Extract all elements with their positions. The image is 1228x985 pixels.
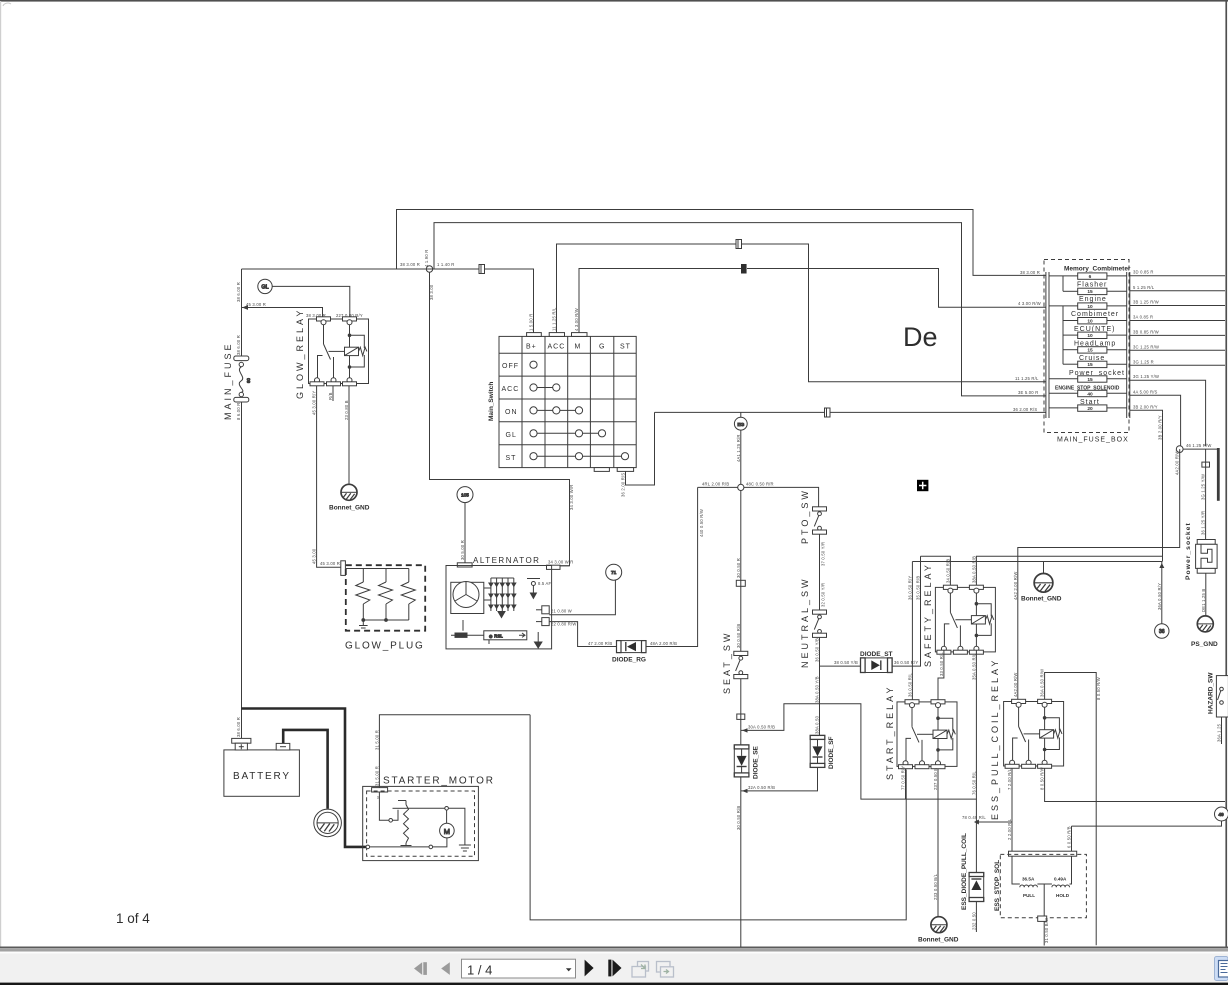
wire ess pin3-bottom out right bbox=[1045, 769, 1225, 802]
svg-text:36A 0.50 R/W: 36A 0.50 R/W bbox=[1040, 669, 1045, 697]
alternator regulator bbox=[451, 620, 527, 644]
connector dark on y269 wire bbox=[741, 264, 747, 274]
svg-text:45 3.00 R/Y: 45 3.00 R/Y bbox=[312, 391, 317, 415]
bus bar right bbox=[1127, 272, 1130, 418]
prev-view icon (disabled) bbox=[632, 962, 649, 978]
page right border bbox=[1225, 1, 1227, 947]
svg-text:EG: EG bbox=[737, 422, 744, 428]
svg-text:3E 5.00 R: 3E 5.00 R bbox=[1018, 390, 1038, 395]
svg-text:227 0.80 R/Y: 227 0.80 R/Y bbox=[336, 313, 363, 318]
svg-text:3C 1.25 R/W: 3C 1.25 R/W bbox=[1133, 344, 1159, 349]
svg-text:30 0.50 R: 30 0.50 R bbox=[736, 558, 741, 578]
wire ess pin1-bottom to solenoid bbox=[1011, 769, 1013, 852]
prev-page button (disabled) bbox=[441, 962, 450, 975]
next-view icon (disabled) bbox=[657, 962, 674, 978]
svg-text:40: 40 bbox=[1087, 391, 1093, 397]
svg-text:71: 71 bbox=[611, 570, 617, 576]
connector on y244 wire bbox=[736, 240, 742, 249]
toolbar body bbox=[0, 953, 1228, 982]
svg-text:36 0.50 R/Y: 36 0.50 R/Y bbox=[894, 660, 918, 665]
svg-text:38 0.50 Y/B: 38 0.50 Y/B bbox=[834, 660, 858, 665]
wire battery negative thick bbox=[283, 730, 327, 809]
svg-text:35A 0.50 R/L: 35A 0.50 R/L bbox=[971, 653, 976, 680]
connector on power socket wire bbox=[1202, 462, 1210, 467]
circle EG bbox=[734, 412, 747, 430]
wire NEUTRAL down to DIODE_SF bbox=[819, 637, 821, 736]
fuse output wires bbox=[1130, 276, 1225, 446]
svg-text:32 0.50 Y/R: 32 0.50 Y/R bbox=[821, 583, 826, 607]
svg-text:36 0.50 R/Y: 36 0.50 R/Y bbox=[907, 576, 912, 600]
svg-text:G: G bbox=[599, 344, 605, 351]
svg-text:38 6.00 R: 38 6.00 R bbox=[236, 335, 241, 355]
wire safety pin bottom3 down long bbox=[975, 650, 977, 822]
svg-text:ACC: ACC bbox=[502, 386, 520, 393]
alternator rotor bbox=[451, 582, 484, 614]
battery minus terminal bbox=[276, 743, 290, 750]
wire start pin1-bottom down bbox=[905, 769, 907, 800]
DIODE_RG bbox=[617, 641, 647, 653]
wire safety pin bottom1 to start pin2 bbox=[938, 650, 944, 700]
wire ACC feed y244 bbox=[557, 244, 1047, 382]
connector on y412 wire bbox=[825, 408, 831, 417]
connector on seat wire bbox=[736, 580, 745, 586]
starter internals bbox=[366, 792, 471, 851]
svg-text:32A 0.50 R/B: 32A 0.50 R/B bbox=[748, 785, 775, 790]
page top border bbox=[0, 0, 1228, 2]
svg-text:38 3.00 R: 38 3.00 R bbox=[306, 313, 326, 318]
sidebar toggle button (bottom right) bbox=[1215, 957, 1228, 981]
fuse internal links bbox=[1062, 276, 1064, 364]
wire EG bus y487 bbox=[698, 486, 738, 488]
svg-text:48C 0.50 R/R: 48C 0.50 R/R bbox=[746, 481, 774, 486]
svg-text:38 3.00: 38 3.00 bbox=[429, 284, 434, 300]
svg-text:ESS_STOP_SOL: ESS_STOP_SOL bbox=[994, 860, 1001, 911]
svg-text:37 0.50 Y/R: 37 0.50 Y/R bbox=[821, 542, 826, 566]
svg-text:3G 1.25 Y/W: 3G 1.25 Y/W bbox=[1133, 374, 1159, 379]
svg-text:11 1.25 R/L: 11 1.25 R/L bbox=[552, 307, 557, 331]
svg-text:38 3.00 R: 38 3.00 R bbox=[400, 262, 420, 267]
wire solenoid right feed bbox=[1071, 826, 1073, 851]
wire glow relay pin2 stub bbox=[332, 386, 334, 401]
svg-text:ON: ON bbox=[505, 409, 518, 416]
switch bottom tabs bbox=[594, 468, 633, 472]
component HAZARD_SW bbox=[1216, 676, 1228, 717]
alternator top terminal bbox=[457, 563, 472, 567]
svg-text:0.49A: 0.49A bbox=[1054, 877, 1067, 882]
wire seat sw branch route bbox=[740, 679, 742, 745]
svg-text:237 0.50 B: 237 0.50 B bbox=[933, 768, 938, 790]
svg-text:10: 10 bbox=[1087, 333, 1093, 339]
connector on seat branch bbox=[737, 714, 745, 719]
svg-text:232 0.50: 232 0.50 bbox=[971, 912, 976, 930]
svg-text:OFF: OFF bbox=[502, 363, 519, 370]
node junction y269 bbox=[426, 266, 432, 272]
svg-text:◎ RSL: ◎ RSL bbox=[489, 633, 503, 638]
svg-text:36A 1.25: 36A 1.25 bbox=[1217, 723, 1222, 742]
svg-text:31 5.00 R: 31 5.00 R bbox=[374, 730, 379, 750]
wire DIODE_RG up loop bbox=[646, 487, 698, 646]
wire ess pin2 feed loop bbox=[1045, 673, 1097, 946]
svg-text:ST: ST bbox=[620, 344, 631, 351]
svg-text:38A 0.50 R/B: 38A 0.50 R/B bbox=[971, 556, 976, 583]
switch contacts row ACC bbox=[530, 361, 629, 460]
svg-text:47 2.00 R/B: 47 2.00 R/B bbox=[588, 641, 612, 646]
wire start pin3-bottom to ground bbox=[937, 769, 939, 917]
svg-text:SEAT_SW: SEAT_SW bbox=[722, 631, 732, 694]
svg-text:10: 10 bbox=[1087, 304, 1093, 310]
svg-text:DIODE_SE: DIODE_SE bbox=[753, 745, 760, 779]
fuse MAIN_FUSE 60 bbox=[234, 356, 251, 402]
svg-text:4A1 1.25 R/R: 4A1 1.25 R/R bbox=[736, 434, 741, 462]
circle 71 bbox=[606, 564, 622, 580]
svg-text:1 of 4: 1 of 4 bbox=[116, 911, 150, 926]
svg-text:11 1.25 R/L: 11 1.25 R/L bbox=[1015, 376, 1039, 381]
page number input bbox=[462, 959, 576, 978]
fuse F-PSOCK 15 bbox=[1049, 376, 1127, 382]
svg-text:Bonnet_GND: Bonnet_GND bbox=[329, 505, 370, 512]
switch PTO_SW bbox=[813, 507, 827, 534]
svg-text:8 0.50 R/W: 8 0.50 R/W bbox=[1040, 767, 1045, 790]
svg-text:36A 0.50 R/Y: 36A 0.50 R/Y bbox=[1157, 583, 1162, 610]
wire second feed y223 bbox=[434, 223, 1046, 396]
svg-text:233 0.50 B/L: 233 0.50 B/L bbox=[933, 873, 938, 900]
svg-text:36 2.00 R/S: 36 2.00 R/S bbox=[1013, 407, 1037, 412]
alternator ground arrow bbox=[534, 642, 543, 649]
svg-text:36.5A: 36.5A bbox=[1022, 877, 1035, 882]
svg-text:30A 0.50 R/B: 30A 0.50 R/B bbox=[748, 724, 775, 729]
svg-text:Combimeter: Combimeter bbox=[1071, 311, 1119, 318]
wire ess diode branch bbox=[976, 822, 1012, 873]
svg-text:7 2.00 R/L: 7 2.00 R/L bbox=[1007, 768, 1012, 790]
svg-text:Main_Switch: Main_Switch bbox=[488, 382, 495, 421]
svg-text:38 6.00 R: 38 6.00 R bbox=[236, 717, 241, 737]
wire start line y561 bbox=[912, 561, 1162, 563]
wire M feed y269 bbox=[579, 269, 1046, 337]
svg-text:DE1 1.25 B: DE1 1.25 B bbox=[1201, 589, 1206, 612]
svg-text:3B 2.00 R/Y: 3B 2.00 R/Y bbox=[1133, 404, 1158, 409]
svg-text:49: 49 bbox=[1218, 812, 1224, 818]
svg-text:8 0.50 R/W: 8 0.50 R/W bbox=[1096, 677, 1101, 700]
svg-text:PTO_SW: PTO_SW bbox=[800, 488, 810, 544]
wire below ess diode bbox=[975, 902, 977, 933]
ground PS_GND bbox=[1197, 616, 1213, 632]
relay U-GLOW (GLOW_RELAY) bbox=[309, 317, 369, 386]
wire seat junction east bbox=[741, 704, 977, 799]
svg-text:45 3.00: 45 3.00 bbox=[312, 548, 317, 564]
wire glow relay pin3 to ground bbox=[348, 386, 350, 484]
switch SEAT_SW bbox=[734, 651, 748, 678]
svg-text:START_RELAY: START_RELAY bbox=[885, 684, 895, 780]
svg-text:R/B: R/B bbox=[328, 392, 333, 400]
wire PTO to NEUTRAL bbox=[819, 534, 821, 610]
page bottom border bbox=[0, 947, 1228, 949]
svg-text:B+: B+ bbox=[526, 344, 537, 351]
Main_Switch table bbox=[499, 336, 636, 467]
svg-text:34 3.00 W/R: 34 3.00 W/R bbox=[548, 560, 573, 565]
svg-text:6 0.50 R/B: 6 0.50 R/B bbox=[1067, 826, 1072, 848]
TOOLBAR bbox=[414, 957, 1228, 981]
wire starter S feed bbox=[379, 715, 530, 788]
svg-text:30 0.50 R/B: 30 0.50 R/B bbox=[736, 806, 741, 830]
diode ESS_DIODE_PULL_COIL bbox=[969, 873, 984, 902]
svg-text:M: M bbox=[444, 827, 450, 836]
svg-text:6: 6 bbox=[1089, 274, 1092, 280]
fuse F-HEAD 15 bbox=[1063, 347, 1127, 353]
svg-text:45 3.00 R: 45 3.00 R bbox=[246, 302, 266, 307]
svg-text:4A2.00 R/W: 4A2.00 R/W bbox=[1175, 450, 1180, 475]
svg-text:ESS_PULL_COIL_RELAY: ESS_PULL_COIL_RELAY bbox=[990, 658, 1000, 820]
page left border bbox=[0, 1, 1, 947]
fuse F-START 20 bbox=[1049, 405, 1127, 411]
alternator sense bbox=[527, 579, 540, 599]
wire glow relay feed y307 bbox=[242, 308, 323, 319]
wire neutral junction to DIODE_ST bbox=[820, 665, 861, 667]
svg-text:SAFETY_RELAY: SAFETY_RELAY bbox=[923, 562, 933, 667]
svg-text:36: 36 bbox=[1159, 629, 1165, 635]
svg-text:DIODE_SF: DIODE_SF bbox=[828, 736, 835, 769]
svg-text:PS_GND: PS_GND bbox=[1191, 641, 1218, 648]
svg-text:3G 1.25 Y/W: 3G 1.25 Y/W bbox=[1201, 474, 1206, 500]
svg-text:4 3.00 R/W: 4 3.00 R/W bbox=[574, 308, 579, 331]
svg-text:4A 5.00 R/S: 4A 5.00 R/S bbox=[1133, 389, 1158, 394]
svg-text:33 0.50 R/L: 33 0.50 R/L bbox=[939, 652, 944, 676]
svg-text:48A 2.00 R/B: 48A 2.00 R/B bbox=[650, 641, 677, 646]
svg-text:15: 15 bbox=[1087, 362, 1093, 368]
wire EG down bbox=[740, 430, 742, 484]
wire main B+ bus y269 bbox=[242, 269, 534, 336]
alternator right terminals bbox=[536, 606, 549, 626]
svg-text:De: De bbox=[903, 322, 938, 352]
svg-text:46 1.25 R/W: 46 1.25 R/W bbox=[1186, 443, 1211, 448]
ground stub Bonnet_GND mid bbox=[1043, 562, 1045, 573]
wire below hazard bbox=[1221, 717, 1223, 744]
svg-text:4 3.00 R/W: 4 3.00 R/W bbox=[1018, 301, 1041, 306]
svg-text:36 1.25 Y/R: 36 1.25 Y/R bbox=[1201, 511, 1206, 535]
svg-text:3D 0.85 R: 3D 0.85 R bbox=[1133, 270, 1154, 275]
svg-text:3A 0.85 R: 3A 0.85 R bbox=[1133, 315, 1153, 320]
GLOW_PLUG dashed box bbox=[346, 565, 425, 631]
svg-text:36 0.50 R/L: 36 0.50 R/L bbox=[907, 673, 912, 697]
wire diode st drop to start relay bbox=[911, 562, 913, 701]
wire junction drop to y480 bbox=[430, 272, 570, 566]
svg-text:DIODE_ST: DIODE_ST bbox=[860, 651, 893, 658]
fuse F-CRUISE 15 bbox=[1063, 361, 1127, 367]
svg-text:440 0.50 R/W: 440 0.50 R/W bbox=[699, 509, 704, 537]
cursor square bbox=[917, 480, 928, 491]
svg-text:Bonnet_GND: Bonnet_GND bbox=[1021, 596, 1062, 603]
wire fuse to battery x241 bbox=[241, 402, 243, 738]
svg-text:78 0.49 R/L: 78 0.49 R/L bbox=[962, 815, 986, 820]
alternator rectifier grid bbox=[484, 578, 516, 618]
bus bar left bbox=[1046, 272, 1049, 418]
last-page button bbox=[608, 960, 611, 977]
diode DIODE_SF bbox=[810, 735, 825, 767]
svg-text:HOLD: HOLD bbox=[1056, 893, 1070, 898]
svg-text:STARTER_MOTOR: STARTER_MOTOR bbox=[383, 776, 495, 787]
wire left vertical x241 bbox=[241, 269, 243, 356]
ground battery body bbox=[314, 809, 342, 837]
svg-text:15: 15 bbox=[1087, 348, 1093, 354]
svg-text:ESS_DIODE_PULL_COIL: ESS_DIODE_PULL_COIL bbox=[961, 833, 968, 910]
svg-text:4A2 2.00 R/W: 4A2 2.00 R/W bbox=[1013, 572, 1018, 600]
wire GL to relay bbox=[272, 286, 350, 318]
next-page button bbox=[585, 960, 594, 977]
wire bottom long run bbox=[530, 715, 906, 920]
fuse F-FLASH 15 bbox=[1063, 288, 1127, 294]
svg-text:ACC: ACC bbox=[548, 344, 566, 351]
svg-text:21 0.80 W: 21 0.80 W bbox=[551, 609, 572, 614]
ground Bonnet_GND (safety area) bbox=[1034, 573, 1053, 592]
svg-text:8.5 AF: 8.5 AF bbox=[538, 581, 552, 586]
wire DIODE_ST out bbox=[892, 665, 912, 667]
wire seat drop bbox=[740, 491, 742, 652]
svg-text:3B 1.25 R/W: 3B 1.25 R/W bbox=[1133, 300, 1159, 305]
svg-text:35 0.50 R/B: 35 0.50 R/B bbox=[916, 576, 921, 600]
fuse F-ESS 40 bbox=[1049, 390, 1127, 396]
svg-text:1 / 4: 1 / 4 bbox=[467, 963, 492, 978]
svg-text:77 0.50 R/Y: 77 0.50 R/Y bbox=[901, 766, 906, 790]
svg-text:45 3.00 R: 45 3.00 R bbox=[320, 561, 340, 566]
fuse F-COMBI 10 bbox=[1063, 318, 1127, 324]
svg-text:Power_socket: Power_socket bbox=[1185, 522, 1192, 580]
relay U-ESS (ESS_PULL_COIL_RELAY) bbox=[1004, 699, 1064, 768]
svg-text:GLOW_RELAY: GLOW_RELAY bbox=[295, 308, 305, 399]
svg-text:1 1.40 R: 1 1.40 R bbox=[437, 262, 454, 267]
wire power line y547 bbox=[1018, 449, 1180, 699]
circle 105 bbox=[457, 487, 473, 503]
wire ST switch output bbox=[626, 412, 655, 485]
svg-text:GLOW_PLUG: GLOW_PLUG bbox=[345, 641, 425, 652]
svg-text:34 3.00 W/R: 34 3.00 W/R bbox=[569, 485, 574, 510]
diode DIODE_SE bbox=[734, 745, 749, 777]
component Power_socket bbox=[1196, 540, 1218, 574]
svg-text:MAIN_FUSE_BOX: MAIN_FUSE_BOX bbox=[1057, 437, 1129, 444]
svg-text:BATTERY: BATTERY bbox=[233, 771, 291, 782]
svg-text:5 1.25 R/L: 5 1.25 R/L bbox=[1133, 285, 1155, 290]
starter S terminal bbox=[372, 788, 388, 792]
svg-text:Engine: Engine bbox=[1079, 296, 1107, 303]
svg-text:23 0.80 B: 23 0.80 B bbox=[344, 400, 349, 420]
svg-text:1 5.00 R: 1 5.00 R bbox=[529, 314, 534, 331]
circle right edge partial bbox=[1215, 807, 1228, 821]
svg-text:20: 20 bbox=[1087, 406, 1093, 412]
svg-text:30 0.50 R/B: 30 0.50 R/B bbox=[736, 624, 741, 648]
svg-text:ST: ST bbox=[506, 455, 517, 462]
DIODE_ST bbox=[861, 658, 893, 673]
wire to PS_GND bbox=[1205, 573, 1207, 615]
wire glow relay pin1 to glow plug bbox=[317, 386, 341, 567]
svg-text:8 6.00 R: 8 6.00 R bbox=[236, 403, 241, 420]
svg-text:GL: GL bbox=[506, 432, 517, 439]
svg-text:15: 15 bbox=[1087, 377, 1093, 383]
svg-text:38A 0.50: 38A 0.50 bbox=[815, 715, 820, 734]
toolbar gray band bbox=[0, 948, 1228, 951]
corner mark bbox=[3, 3, 11, 6]
svg-text:38 3.00 R: 38 3.00 R bbox=[1020, 270, 1040, 275]
svg-text:3B 2.00 R/Y: 3B 2.00 R/Y bbox=[1158, 415, 1163, 440]
wire power socket drop bbox=[1205, 449, 1207, 539]
svg-text:22 0.80 R/W: 22 0.80 R/W bbox=[551, 622, 576, 627]
svg-text:GL: GL bbox=[261, 285, 268, 291]
svg-text:4A2.00 R/W: 4A2.00 R/W bbox=[1013, 672, 1018, 697]
connector on y269 wire bbox=[479, 265, 485, 274]
wire safety pin1 feed bbox=[921, 556, 951, 585]
svg-text:PULL: PULL bbox=[1023, 893, 1035, 898]
svg-text:Bonnet_GND: Bonnet_GND bbox=[918, 937, 959, 944]
svg-text:31 5.00 R: 31 5.00 R bbox=[374, 766, 379, 786]
wire safety pin2 feed bbox=[976, 556, 1162, 585]
svg-text:MAIN_FUSE: MAIN_FUSE bbox=[223, 341, 233, 420]
toolbar light row bbox=[0, 952, 1228, 954]
svg-text:3G 1.25 R: 3G 1.25 R bbox=[1133, 359, 1154, 364]
svg-text:34 0.50 R/B: 34 0.50 R/B bbox=[945, 559, 950, 583]
switch top tabs bbox=[527, 333, 587, 337]
ground Bonnet_GND (glow relay) bbox=[341, 484, 357, 500]
wire start fuse drop x1162 bbox=[1162, 412, 1164, 561]
GL circle bbox=[258, 279, 272, 293]
svg-text:38A 0.50 Y/B: 38A 0.50 Y/B bbox=[815, 676, 820, 703]
solenoid ESS_STOP_SOL bbox=[1000, 854, 1086, 917]
svg-text:36 0.50 Y/B: 36 0.50 Y/B bbox=[815, 638, 820, 662]
ground Bonnet_GND (start relay) bbox=[931, 917, 947, 933]
fuse F-MEM 6 bbox=[1049, 273, 1127, 279]
svg-text:Memory_Combimeter: Memory_Combimeter bbox=[1064, 266, 1131, 273]
wire below DIODE_SE bbox=[740, 777, 742, 947]
svg-text:4RL 2.00 R/B: 4RL 2.00 R/B bbox=[702, 481, 729, 486]
MAIN_FUSE_BOX dashed box bbox=[1044, 260, 1129, 433]
circle 36 bbox=[1161, 562, 1163, 624]
alternator B+ terminal bbox=[547, 565, 570, 569]
wire alternator to 71 bbox=[549, 580, 615, 614]
wire top feed horizontal y210 bbox=[397, 210, 1047, 276]
svg-text:NEUTRAL_SW: NEUTRAL_SW bbox=[800, 576, 810, 668]
svg-text:36 2.00 R/S: 36 2.00 R/S bbox=[621, 473, 626, 497]
relay U-START (START_RELAY) bbox=[897, 700, 957, 769]
svg-text:ALTERNATOR: ALTERNATOR bbox=[473, 556, 540, 565]
svg-text:HAZARD_SW: HAZARD_SW bbox=[1208, 672, 1215, 714]
svg-text:105: 105 bbox=[461, 493, 469, 498]
wire alternator to DIODE_RG bbox=[549, 622, 616, 647]
STARTER_MOTOR box bbox=[363, 786, 479, 860]
GLOW_PLUG connector bbox=[341, 561, 346, 576]
battery plus terminal bbox=[232, 738, 251, 750]
wire 105 to alternator bbox=[464, 503, 466, 563]
node EG junction bbox=[738, 484, 744, 490]
svg-text:38 6.00 R: 38 6.00 R bbox=[236, 282, 241, 302]
wire battery positive thick bbox=[241, 709, 366, 847]
svg-text:2 2.00 R/L: 2 2.00 R/L bbox=[1007, 818, 1012, 840]
svg-text:31 0.50 B/W: 31 0.50 B/W bbox=[1044, 918, 1049, 943]
node power junction bbox=[1176, 446, 1183, 453]
ALTERNATOR box bbox=[446, 566, 552, 649]
svg-text:30 5.00 R: 30 5.00 R bbox=[460, 540, 465, 560]
svg-text:15: 15 bbox=[1087, 289, 1093, 295]
BATTERY box bbox=[224, 750, 300, 796]
svg-text:M: M bbox=[575, 344, 582, 351]
wire start-fuse row y412 bbox=[655, 411, 1047, 413]
svg-text:3B 0.85 R/W: 3B 0.85 R/W bbox=[1133, 329, 1159, 334]
relay U-SAFETY (SAFETY_RELAY) bbox=[935, 585, 995, 654]
right edge bundle bar bbox=[1217, 448, 1220, 501]
svg-text:Flasher: Flasher bbox=[1077, 281, 1107, 288]
fuse F-ENG 10 bbox=[1049, 303, 1127, 309]
glow plug elements bbox=[346, 569, 416, 629]
fuse F-ECU 10 bbox=[1063, 332, 1127, 338]
first-page button (disabled) bbox=[414, 962, 422, 975]
svg-text:60: 60 bbox=[246, 377, 251, 383]
wire SE-SF link y791 bbox=[741, 768, 818, 791]
toolbar dark bottom strip bbox=[0, 983, 1228, 985]
